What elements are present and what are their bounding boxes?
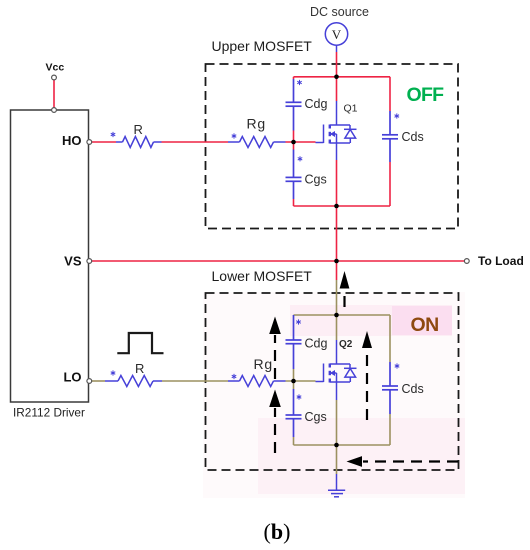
svg-text:LO: LO bbox=[63, 370, 81, 385]
svg-text:Vcc: Vcc bbox=[46, 62, 65, 74]
svg-text:DC source: DC source bbox=[310, 5, 369, 19]
svg-text:Cdg: Cdg bbox=[305, 337, 328, 351]
svg-text:OFF: OFF bbox=[407, 84, 445, 106]
svg-text:Rg: Rg bbox=[247, 116, 267, 132]
svg-text:HO: HO bbox=[62, 133, 82, 148]
svg-text:Cds: Cds bbox=[402, 130, 424, 144]
svg-text:R: R bbox=[135, 361, 144, 376]
svg-text:R: R bbox=[134, 122, 143, 137]
svg-text:Cdg: Cdg bbox=[305, 97, 328, 111]
svg-text:Cgs: Cgs bbox=[305, 410, 327, 424]
svg-text:ON: ON bbox=[411, 314, 439, 336]
svg-text:Cds: Cds bbox=[402, 382, 424, 396]
svg-text:Q2: Q2 bbox=[339, 339, 353, 350]
svg-text:Rg: Rg bbox=[254, 356, 274, 372]
svg-text:IR2112 Driver: IR2112 Driver bbox=[13, 406, 85, 420]
svg-text:Q1: Q1 bbox=[344, 103, 358, 115]
svg-text:To Load: To Load bbox=[478, 254, 524, 268]
svg-text:VS: VS bbox=[64, 254, 82, 269]
svg-text:Upper MOSFET: Upper MOSFET bbox=[212, 38, 313, 54]
svg-text:V: V bbox=[332, 27, 342, 42]
svg-text:(b): (b) bbox=[264, 519, 291, 544]
svg-text:Cgs: Cgs bbox=[305, 173, 327, 187]
svg-text:Lower MOSFET: Lower MOSFET bbox=[212, 268, 313, 284]
